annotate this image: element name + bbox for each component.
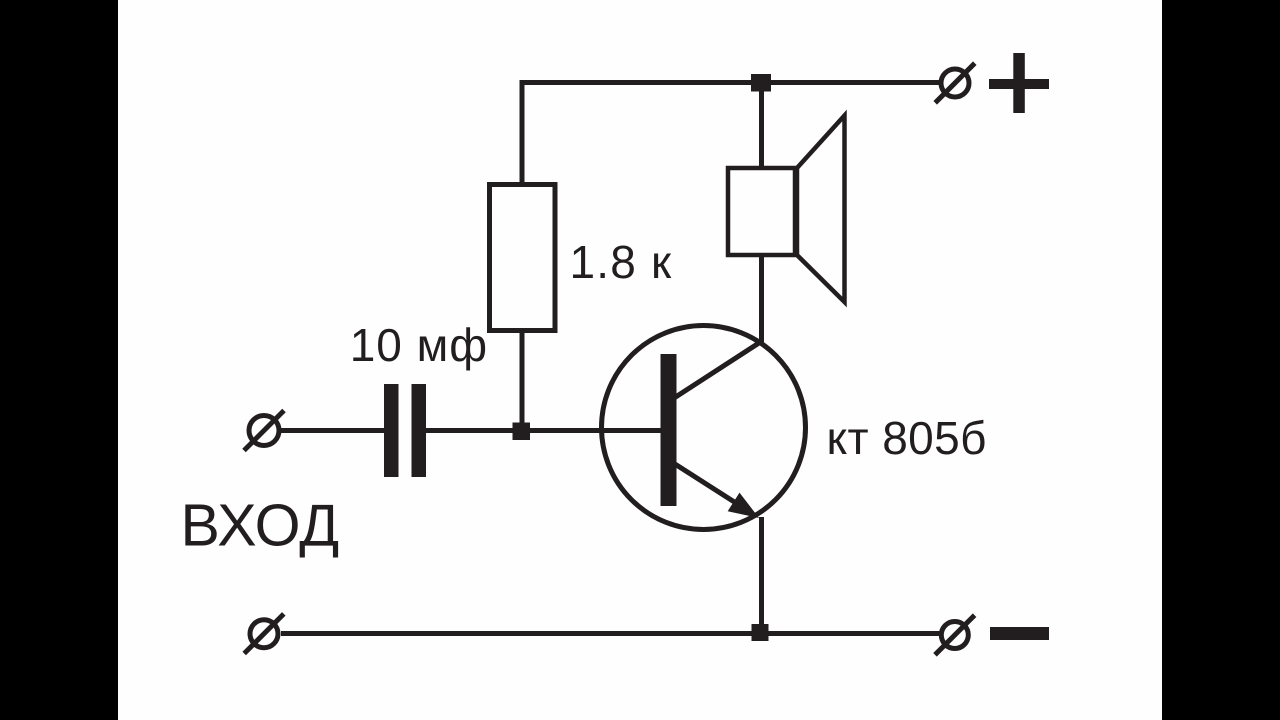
minus sign (- supply) [990,627,1049,640]
svg-text:10 мф: 10 мф [350,319,488,371]
plus terminal (circle with slash) [935,63,975,103]
minus terminal (circle with slash) [935,615,975,655]
wire from speaker top to top rail [759,80,764,168]
svg-text:кт 805б: кт 805б [827,412,987,464]
resistor R1 [490,185,556,331]
svg-text:1.8 к: 1.8 к [570,236,673,288]
svg-text:ВХОД: ВХОД [181,492,340,558]
speaker LS1 [728,116,845,303]
wire bottom rail [281,631,940,636]
input terminal (circle with slash) [244,411,284,451]
node junction on top rail (solid square) [751,74,771,92]
right letterbox bar [1162,0,1280,720]
plus sign (+ supply) [989,53,1049,113]
wire from top rail down to resistor R1 [520,80,525,184]
node junction at base (solid square) [513,423,531,441]
transistor VT1 (кт 805б) [602,326,806,530]
wire emitter down to bottom rail [759,517,764,630]
wire collector up to speaker [759,256,764,342]
node junction on bottom rail (solid square) [752,624,769,641]
capacitor C1 (two plates) [384,384,426,477]
wire from capacitor C1 to transistor base [426,428,661,433]
wire from resistor R1 down to base node [520,331,525,431]
ground-side input terminal (circle with slash) [244,614,284,654]
left letterbox bar [0,0,118,720]
wire from input terminal to capacitor C1 [281,428,385,433]
wire top rail [522,80,940,85]
